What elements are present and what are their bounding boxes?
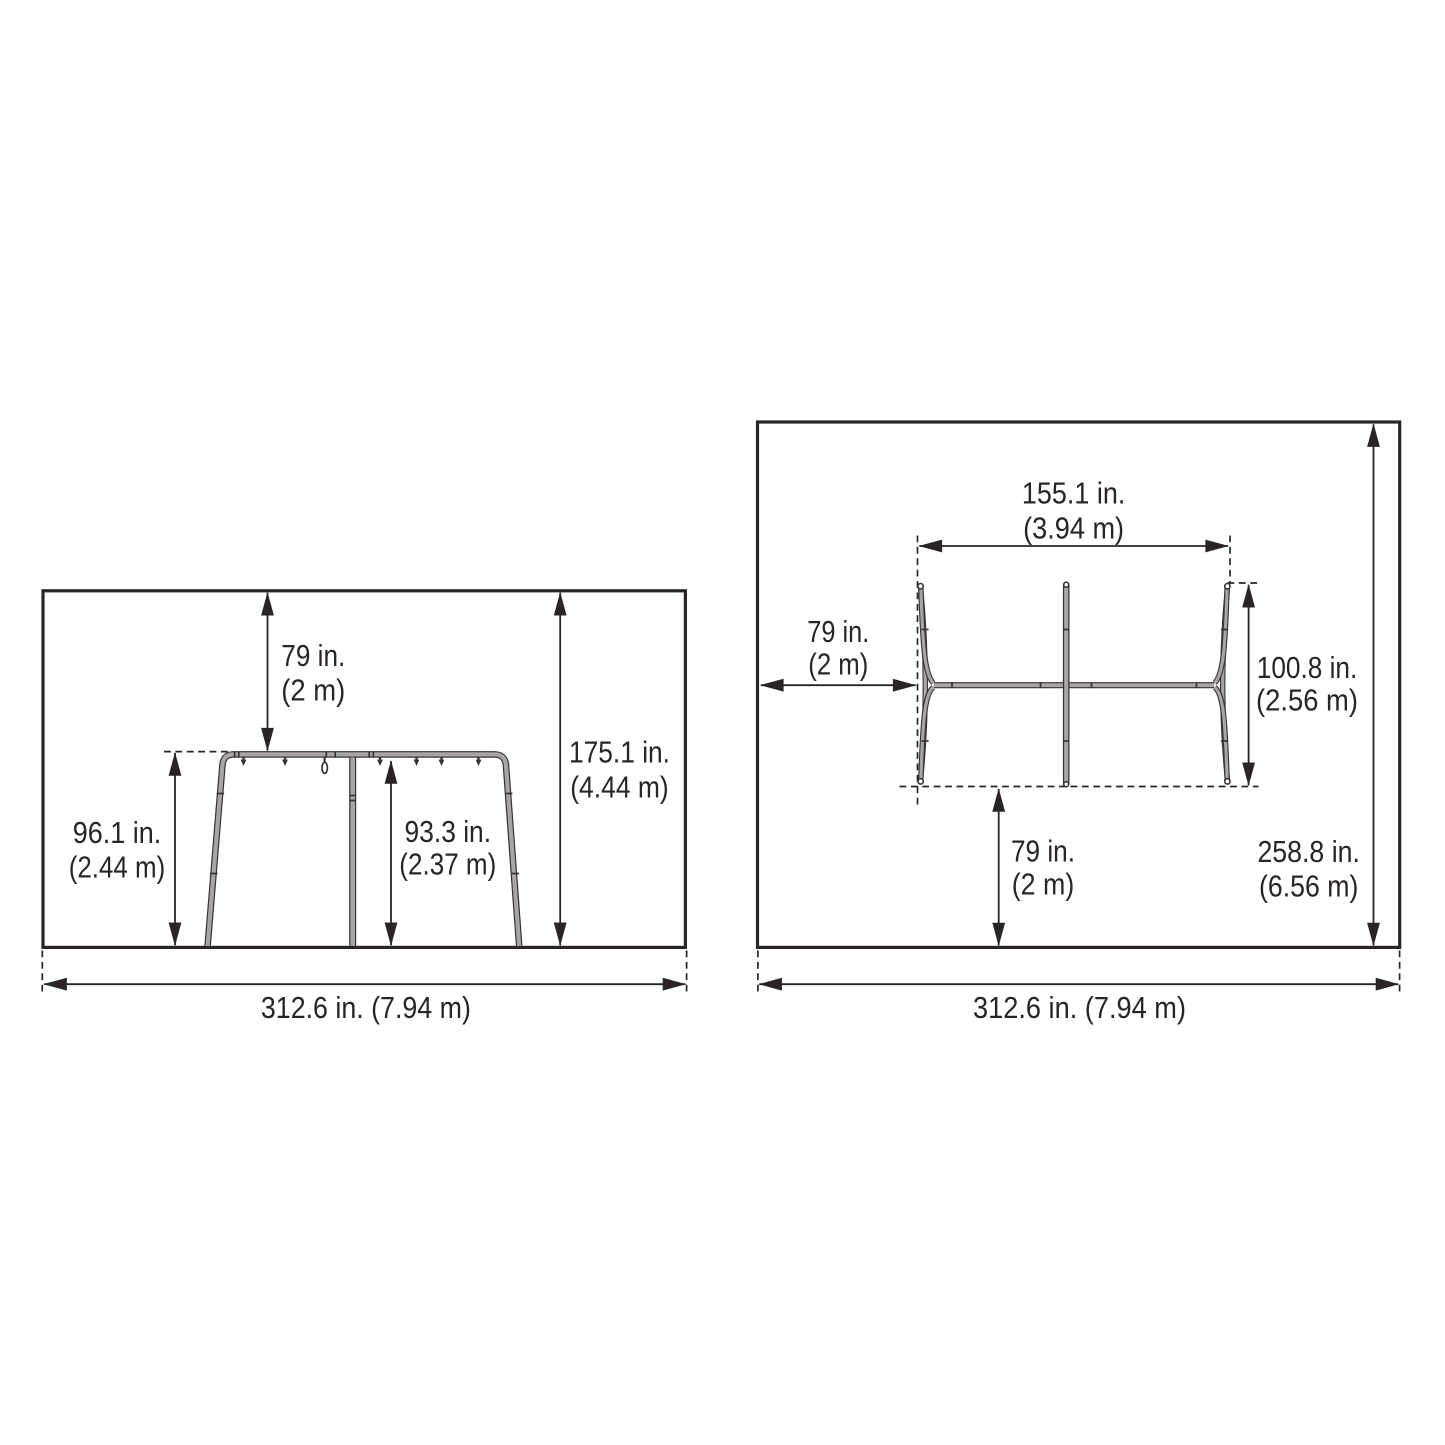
- dimension arrow 79 in. top clearance (front view): [267, 593, 269, 751]
- center post (top view): [1063, 586, 1070, 784]
- extension line frame bottom (top view): [900, 786, 1259, 788]
- svg-text:(2 m): (2 m): [281, 672, 345, 707]
- swing frame top bar and legs (front view): [208, 754, 520, 946]
- left legs outer tube (top view): [921, 589, 926, 780]
- extension line below right corner (front view): [686, 951, 688, 996]
- dimension arrow 93.3 in. bar height (front view): [390, 761, 392, 945]
- svg-text:(4.44 m): (4.44 m): [570, 770, 669, 805]
- svg-text:258.8 in.: 258.8 in.: [1257, 834, 1360, 869]
- label 79 in. (2 m) bottom (top view): [1011, 833, 1075, 901]
- dimension arrow 312.6 in. width (top view): [759, 983, 1398, 985]
- dimension arrow 155.1 in. frame width (top view): [919, 545, 1228, 547]
- svg-text:(2.37 m): (2.37 m): [399, 846, 496, 881]
- right leg lower slant (top view): [1215, 687, 1227, 779]
- label 312.6 in. (7.94 m) (front view): [261, 990, 471, 1025]
- label 79 in. (2 m) left (top view): [807, 614, 869, 681]
- svg-text:(3.94 m): (3.94 m): [1023, 511, 1124, 546]
- left leg upper slant (top view): [921, 588, 933, 683]
- swing frame center post (front view): [349, 757, 356, 946]
- svg-text:312.6 in. (7.94 m): 312.6 in. (7.94 m): [261, 990, 471, 1025]
- label 79 in. (2 m) (front view): [281, 638, 345, 707]
- svg-text:93.3 in.: 93.3 in.: [405, 814, 492, 849]
- label 312.6 in. (7.94 m) (top view): [973, 990, 1186, 1025]
- dimension arrow 79 in. bottom clearance (top view): [998, 789, 1000, 945]
- extension line below left corner (top view): [757, 951, 759, 996]
- label 96.1 in. (2.44 m): [69, 815, 166, 885]
- extension line frame top right (top view): [1228, 582, 1259, 584]
- dimension arrow 79 in. left clearance (top view): [761, 684, 916, 686]
- crossbar (top view): [934, 682, 1214, 688]
- svg-text:155.1 in.: 155.1 in.: [1022, 476, 1126, 511]
- svg-text:(6.56 m): (6.56 m): [1259, 869, 1359, 904]
- label 258.8 in. (6.56 m): [1257, 834, 1360, 904]
- right legs outer tube (top view): [1223, 589, 1228, 780]
- right leg upper slant (top view): [1215, 588, 1227, 683]
- dimension arrow 96.1 in. frame height (front view): [174, 753, 176, 945]
- svg-text:100.8 in.: 100.8 in.: [1257, 650, 1358, 685]
- label 175.1 in. (4.44 m): [569, 735, 670, 805]
- frame joint marks (top view): [922, 630, 1228, 742]
- dimension arrow 258.8 in. total depth (top view): [1373, 424, 1375, 945]
- extension line at frame top height: [164, 751, 228, 753]
- extension line left frame edge (top view): [917, 536, 919, 806]
- dimension arrow 175.1 in. total height (front view): [559, 593, 561, 945]
- svg-text:79 in.: 79 in.: [281, 638, 345, 673]
- clearance zone box (front view): [43, 591, 685, 948]
- extension line below right corner (top view): [1399, 951, 1401, 996]
- extension line right frame edge (top view): [1229, 536, 1231, 584]
- leg tip caps (top view): [918, 582, 1230, 787]
- svg-text:(2 m): (2 m): [1012, 866, 1075, 901]
- svg-text:312.6 in. (7.94 m): 312.6 in. (7.94 m): [973, 990, 1186, 1025]
- svg-text:79 in.: 79 in.: [807, 614, 869, 649]
- svg-text:175.1 in.: 175.1 in.: [569, 735, 670, 770]
- label 100.8 in. (2.56 m): [1256, 650, 1358, 718]
- clearance zone box (top view): [758, 422, 1400, 947]
- left leg lower slant (top view): [921, 687, 933, 779]
- swing hangers (front view): [241, 757, 482, 766]
- label 155.1 in. (3.94 m): [1022, 476, 1126, 546]
- carabiner clip hanging from top bar: [322, 757, 327, 773]
- svg-text:(2.44 m): (2.44 m): [69, 850, 166, 885]
- label 93.3 in. (2.37 m): [399, 814, 496, 881]
- dimension arrow 312.6 in. width (front view): [44, 983, 685, 985]
- frame joint marks (front view): [210, 752, 519, 874]
- svg-text:(2 m): (2 m): [808, 646, 868, 681]
- svg-text:96.1 in.: 96.1 in.: [73, 815, 162, 850]
- svg-text:(2.56 m): (2.56 m): [1256, 683, 1358, 718]
- extension line below left corner (front view): [41, 951, 43, 996]
- dimension arrow 100.8 in. frame depth (top view): [1248, 585, 1250, 785]
- svg-text:79 in.: 79 in.: [1011, 833, 1075, 868]
